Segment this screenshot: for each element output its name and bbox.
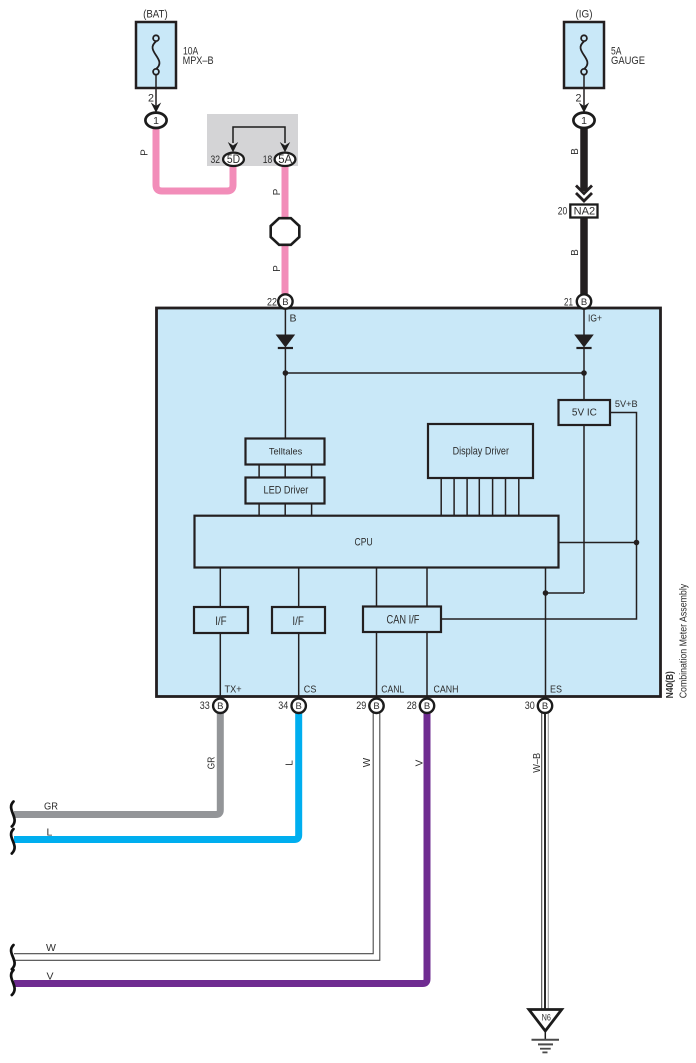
- svg-text:I/F: I/F: [292, 614, 303, 628]
- svg-text:P: P: [272, 265, 283, 272]
- svg-text:1: 1: [581, 115, 587, 127]
- svg-text:5V IC: 5V IC: [572, 408, 597, 419]
- svg-text:TX+: TX+: [225, 684, 242, 696]
- svg-text:N40(B): N40(B): [665, 671, 676, 698]
- svg-text:B: B: [282, 297, 288, 308]
- svg-text:(BAT): (BAT): [143, 8, 168, 20]
- svg-text:B: B: [217, 701, 223, 712]
- svg-text:W–B: W–B: [532, 752, 543, 772]
- svg-text:W: W: [362, 757, 373, 767]
- svg-text:CS: CS: [304, 684, 317, 696]
- svg-text:B: B: [290, 312, 297, 324]
- svg-text:I/F: I/F: [215, 614, 226, 628]
- svg-text:B: B: [581, 297, 587, 308]
- svg-text:P: P: [140, 149, 151, 156]
- svg-text:V: V: [47, 971, 54, 983]
- svg-text:33: 33: [200, 700, 210, 712]
- svg-text:(IG): (IG): [576, 8, 593, 20]
- svg-text:CAN I/F: CAN I/F: [387, 613, 420, 627]
- svg-text:Telltales: Telltales: [269, 446, 303, 456]
- svg-text:B: B: [542, 701, 548, 712]
- svg-text:1: 1: [153, 115, 159, 127]
- svg-text:B: B: [373, 701, 379, 712]
- svg-text:N6: N6: [542, 1013, 551, 1023]
- svg-text:GAUGE: GAUGE: [611, 55, 645, 67]
- svg-text:5D: 5D: [227, 154, 240, 166]
- svg-text:MPX–B: MPX–B: [183, 55, 214, 67]
- svg-text:IG+: IG+: [588, 312, 602, 324]
- svg-text:32: 32: [211, 154, 221, 166]
- svg-text:GR: GR: [44, 801, 58, 813]
- svg-text:CANH: CANH: [434, 684, 459, 696]
- svg-text:GR: GR: [207, 757, 218, 769]
- svg-text:ES: ES: [550, 684, 562, 696]
- svg-text:B: B: [570, 249, 581, 256]
- svg-text:NA2: NA2: [574, 206, 596, 218]
- svg-text:21: 21: [564, 297, 573, 309]
- svg-text:5A: 5A: [278, 154, 292, 166]
- svg-text:18: 18: [263, 154, 273, 166]
- svg-text:Combination Meter Assembly: Combination Meter Assembly: [678, 583, 689, 698]
- svg-text:L: L: [47, 827, 53, 839]
- svg-text:Display Driver: Display Driver: [453, 446, 510, 458]
- svg-text:2: 2: [576, 93, 582, 105]
- svg-text:29: 29: [356, 700, 366, 712]
- svg-text:CANL: CANL: [381, 684, 404, 696]
- svg-text:V: V: [415, 759, 426, 766]
- svg-text:L: L: [285, 760, 296, 766]
- svg-text:30: 30: [525, 700, 535, 712]
- svg-text:CPU: CPU: [355, 536, 373, 548]
- svg-text:B: B: [570, 148, 581, 155]
- svg-text:B: B: [424, 701, 430, 712]
- svg-text:W: W: [46, 942, 56, 954]
- svg-text:28: 28: [407, 700, 417, 712]
- svg-text:B: B: [296, 701, 302, 712]
- svg-text:20: 20: [558, 206, 568, 218]
- svg-text:5V+B: 5V+B: [615, 399, 638, 409]
- svg-text:LED Driver: LED Driver: [264, 485, 309, 497]
- svg-text:P: P: [272, 188, 283, 195]
- svg-text:22: 22: [267, 297, 277, 309]
- svg-text:34: 34: [278, 700, 288, 712]
